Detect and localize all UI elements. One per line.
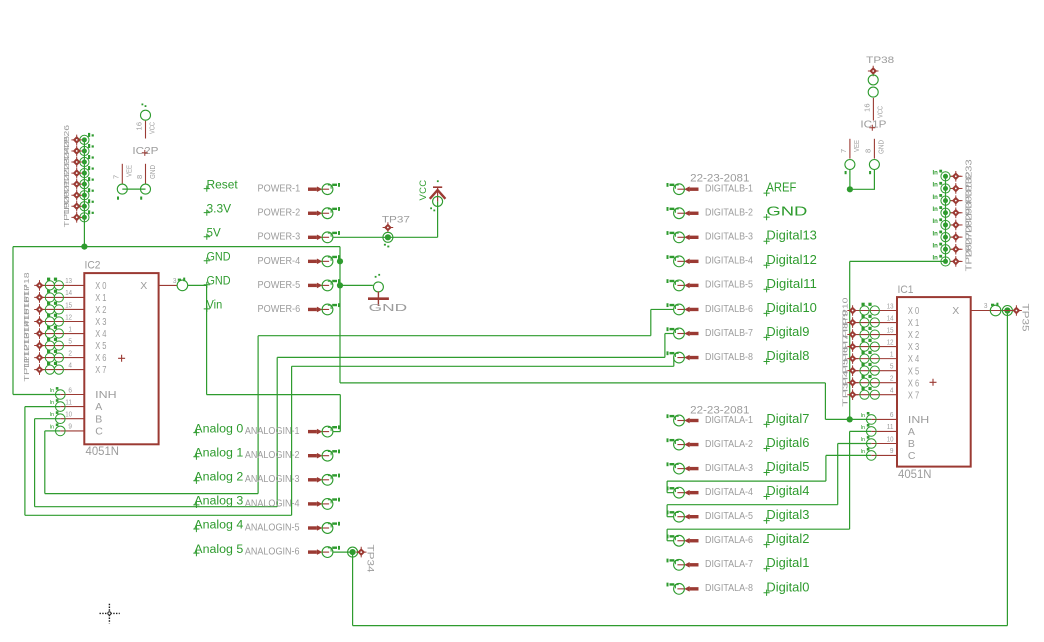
net label Digital4 (764, 483, 810, 500)
net label Digital5 (764, 459, 810, 476)
svg-text:VEE: VEE (854, 140, 861, 152)
test points TP19-TP26 column (80, 133, 94, 222)
net label Analog 1 (193, 447, 243, 459)
sheet origin crosshair (100, 604, 120, 624)
junction GND at TP column (81, 244, 87, 250)
svg-text:Analog 3: Analog 3 (194, 496, 243, 508)
svg-text:Digital8: Digital8 (766, 348, 809, 363)
connector pin DIGITALA-4 (667, 486, 699, 498)
svg-text:TP3: TP3 (841, 382, 850, 407)
svg-text:TP35: TP35 (1020, 304, 1031, 332)
svg-text:B: B (95, 413, 102, 425)
wire VCC POWER-3 to TP37 and VCC symbol (333, 236, 437, 238)
test point column labels right (965, 159, 974, 272)
net label 3.3V (204, 203, 232, 215)
connector pin DIGITALB-6 (667, 303, 699, 315)
svg-text:ANALOGIN-3: ANALOGIN-3 (245, 473, 300, 485)
svg-text:ANALOGIN-1: ANALOGIN-1 (245, 425, 300, 437)
wire net Digital9 IC2 B to DIGITALB-7 (35, 418, 61, 420)
svg-text:Digital1: Digital1 (766, 555, 809, 570)
svg-text:GND: GND (879, 140, 886, 154)
test point TP23 cross (71, 168, 82, 179)
svg-text:POWER-5: POWER-5 (258, 279, 301, 291)
IC1 pin 10 B (861, 436, 898, 448)
net label 5V (204, 228, 221, 240)
svg-text:DIGITALA-8: DIGITALA-8 (705, 583, 753, 594)
test points TP27-TP34 column right (933, 170, 963, 266)
svg-text:X 6: X 6 (95, 352, 106, 364)
IC2 test point column labels TP11-TP18 (22, 272, 31, 381)
svg-text:A: A (95, 401, 102, 413)
test point TP27 cross (951, 244, 962, 255)
svg-text:In: In (933, 207, 939, 213)
connector pin DIGITALB-3 (667, 231, 699, 243)
TP37 tiny marks (384, 244, 386, 246)
test point TP38 pad (868, 75, 878, 85)
svg-text:11: 11 (887, 422, 894, 431)
svg-text:6: 6 (890, 410, 894, 419)
connector pin DIGITALB-2 (667, 207, 699, 219)
svg-text:TP19: TP19 (62, 202, 71, 227)
IC1 pin 3 X output with TP35 (971, 303, 1022, 316)
net label Digital2 (764, 531, 810, 548)
IC2 test point cross X6 (34, 352, 45, 363)
svg-text:In: In (861, 425, 866, 431)
svg-text:13: 13 (65, 276, 72, 285)
net label Analog 0 (193, 423, 243, 435)
svg-text:VCC: VCC (150, 122, 157, 134)
svg-text:POWER-1: POWER-1 (258, 183, 301, 195)
IC1 pin 12 X3 with test point (853, 339, 897, 351)
test point TP28 cross (951, 232, 962, 243)
svg-text:Digital10: Digital10 (766, 300, 817, 315)
svg-text:3: 3 (173, 276, 177, 285)
svg-text:DIGITALA-2: DIGITALA-2 (705, 439, 753, 450)
net label Digital9 (764, 324, 810, 341)
connector pin POWER-1 (308, 183, 340, 195)
svg-text:TP34: TP34 (365, 545, 376, 573)
svg-text:16: 16 (863, 103, 872, 112)
IC2 origin cross (118, 355, 125, 362)
IC1 test point cross X0 (847, 305, 858, 316)
test point TP38 cross (868, 66, 879, 77)
connector pin DIGITALB-8 (667, 351, 699, 363)
net label AREF (764, 180, 797, 197)
wire GND horizontal to right side (340, 382, 825, 384)
svg-text:DIGITALA-3: DIGITALA-3 (705, 463, 753, 474)
test point TP30 cross (951, 207, 962, 218)
svg-text:5: 5 (890, 361, 894, 370)
svg-text:7: 7 (112, 175, 121, 179)
wire net Analog5 ANALOGIN-6 to TP34 (333, 551, 352, 553)
svg-text:POWER-2: POWER-2 (258, 207, 301, 219)
svg-text:Digital2: Digital2 (766, 531, 809, 546)
svg-text:POWER-6: POWER-6 (258, 303, 301, 315)
IC1 test point column labels TP3-TP10 (841, 298, 850, 407)
IC1 pin 6 INH (861, 412, 898, 424)
svg-text:DIGITALA-5: DIGITALA-5 (705, 511, 753, 522)
IC1 pin 5 X5 with test point (853, 363, 897, 375)
svg-text:3.3V: 3.3V (207, 203, 232, 215)
test point TP34 pad (348, 547, 358, 557)
connector pin DIGITALA-5 (667, 511, 699, 523)
connector pin ANALOGIN-4 (308, 498, 340, 510)
svg-text:11: 11 (65, 397, 72, 406)
IC2 pin 5 X5 with test point (40, 338, 85, 350)
IC1P pin 8 GND (869, 139, 879, 174)
svg-text:Analog 2: Analog 2 (194, 472, 243, 484)
connector pin ANALOGIN-5 (308, 522, 340, 534)
IC1P pin 7 VEE (845, 139, 855, 174)
connector pin DIGITALA-2 (667, 438, 699, 450)
svg-text:In: In (933, 219, 939, 225)
net label GND (764, 204, 808, 221)
svg-text:In: In (933, 183, 939, 189)
IC1P pin 16 VCC (868, 87, 878, 120)
wire GND TP19-26 column stem (83, 140, 85, 247)
svg-text:X 5: X 5 (908, 365, 919, 377)
svg-text:Analog 0: Analog 0 (194, 423, 243, 435)
svg-text:X 2: X 2 (908, 329, 919, 341)
svg-text:In: In (50, 412, 55, 418)
connector pin DIGITALA-8 (667, 583, 699, 595)
IC1 test point cross X4 (847, 353, 858, 364)
svg-text:10: 10 (887, 434, 894, 443)
svg-text:X: X (140, 280, 147, 292)
svg-text:ANALOGIN-5: ANALOGIN-5 (245, 521, 300, 533)
svg-text:13: 13 (887, 301, 894, 310)
IC1 pin 2 X6 with test point (853, 375, 897, 387)
wire GND to right TP column stem (850, 260, 946, 262)
svg-text:4: 4 (890, 386, 894, 395)
wire IC2P VEE-GND tie (122, 188, 145, 190)
wire GND right TP column chain (945, 176, 947, 261)
svg-text:8: 8 (135, 175, 144, 179)
svg-text:4051N: 4051N (898, 469, 932, 481)
svg-text:TP37: TP37 (382, 214, 410, 224)
svg-text:X 2: X 2 (95, 304, 106, 316)
connector pin DIGITALA-3 (667, 462, 699, 474)
svg-text:X 6: X 6 (908, 377, 919, 389)
svg-text:5: 5 (68, 336, 72, 345)
svg-text:5V: 5V (207, 228, 222, 240)
svg-text:Digital7: Digital7 (766, 411, 809, 426)
svg-text:Digital12: Digital12 (766, 252, 817, 267)
svg-text:DIGITALB-8: DIGITALB-8 (705, 352, 753, 363)
svg-text:DIGITALA-6: DIGITALA-6 (705, 535, 753, 546)
test point TP25 cross (71, 146, 82, 157)
svg-text:Digital11: Digital11 (766, 276, 817, 291)
svg-text:X 7: X 7 (95, 364, 106, 376)
svg-text:In: In (933, 171, 939, 177)
test point TP22 cross (71, 179, 82, 190)
test point TP33 cross (951, 171, 962, 182)
svg-text:DIGITALB-3: DIGITALB-3 (705, 232, 753, 243)
svg-text:Digital0: Digital0 (766, 579, 809, 594)
svg-text:In: In (861, 437, 866, 443)
svg-text:DIGITALB-7: DIGITALB-7 (705, 328, 753, 339)
net label Analog 3 (193, 496, 243, 508)
IC2 pin 11 A (50, 399, 85, 411)
svg-text:AREF: AREF (766, 180, 796, 195)
net label Analog 4 (193, 520, 244, 532)
svg-text:Vin: Vin (207, 300, 223, 312)
test point TP37 pad (383, 232, 393, 242)
wire GND vertical bus x340 (339, 247, 341, 383)
connector pin ANALOGIN-2 (308, 450, 340, 462)
IC1 pin 1 X4 with test point (853, 351, 897, 363)
wire net Digital3 DIGITALA-5 to IC1 B (667, 516, 674, 518)
svg-text:TP11: TP11 (22, 357, 31, 382)
svg-text:In: In (933, 231, 939, 237)
wire GND left drop to IC2 INH (12, 247, 14, 395)
svg-text:4051N: 4051N (86, 446, 120, 458)
test point TP24 cross (71, 157, 82, 168)
svg-text:Digital6: Digital6 (766, 435, 809, 450)
svg-text:ANALOGIN-4: ANALOGIN-4 (245, 497, 300, 509)
svg-text:IC1: IC1 (898, 284, 914, 296)
IC1 test point cross X3 (847, 341, 858, 352)
svg-text:X: X (952, 305, 959, 317)
svg-text:14: 14 (887, 313, 894, 322)
wire net Digital10 IC2 C to DIGITALB-6 (45, 430, 61, 432)
IC2 test point cross X1 (34, 292, 45, 303)
IC2 pin 3 X output (159, 278, 188, 291)
op-amp IC2 4051N body (84, 273, 158, 444)
svg-text:8: 8 (864, 149, 873, 153)
svg-text:2: 2 (890, 373, 894, 382)
test point TP29 cross (951, 220, 962, 231)
svg-text:Digital5: Digital5 (766, 459, 809, 474)
svg-text:ANALOGIN-2: ANALOGIN-2 (245, 449, 300, 461)
junction TP37 (385, 234, 391, 240)
net label Digital13 (764, 228, 817, 245)
svg-text:C: C (95, 426, 103, 438)
net label Digital1 (764, 555, 810, 572)
IC2 pin 12 X3 with test point (40, 314, 85, 326)
wire net Analog0 IC2 X output (188, 284, 207, 286)
connector pin DIGITALB-7 (667, 327, 699, 339)
IC1 test point cross X6 (847, 377, 858, 388)
junction TP35 (1004, 307, 1010, 313)
net label Digital8 (764, 348, 810, 365)
svg-text:12: 12 (887, 337, 894, 346)
connector pin DIGITALB-1 (667, 183, 699, 195)
IC1 test point cross X5 (847, 365, 858, 376)
svg-text:C: C (908, 450, 916, 462)
svg-text:9: 9 (68, 422, 72, 431)
supply GND symbol (368, 274, 389, 306)
svg-text:ANALOGIN-6: ANALOGIN-6 (245, 546, 300, 558)
test point TP19 cross (71, 212, 82, 223)
net label Digital0 (764, 579, 810, 596)
svg-text:Reset: Reset (207, 179, 239, 191)
IC1 origin cross (930, 379, 937, 386)
wire net Analog5 bottom run to IC1 X output TP35 (352, 552, 354, 626)
svg-text:10: 10 (65, 410, 72, 419)
svg-text:Analog 5: Analog 5 (194, 544, 243, 556)
test point column labels TP19-TP26 (62, 125, 71, 227)
connector pin DIGITALA-7 (667, 559, 699, 571)
IC2 pin 14 X1 with test point (40, 290, 85, 302)
svg-text:Analog 1: Analog 1 (194, 447, 243, 459)
svg-text:16: 16 (135, 122, 144, 131)
svg-text:GND: GND (369, 302, 408, 314)
IC2 pin 2 X6 with test point (40, 350, 85, 362)
wire net Digital2 DIGITALA-6 to IC1 A (667, 540, 674, 542)
IC1 pin 9 C (861, 448, 898, 460)
svg-text:15: 15 (65, 300, 72, 309)
connector pin POWER-5 (308, 279, 340, 291)
svg-text:Digital9: Digital9 (766, 324, 809, 339)
svg-text:VEE: VEE (127, 165, 134, 177)
svg-text:DIGITALA-7: DIGITALA-7 (705, 559, 753, 570)
svg-text:Digital13: Digital13 (766, 228, 817, 243)
IC1 pin 4 X7 with test point (853, 387, 897, 399)
IC2 test point cross X2 (34, 304, 45, 315)
IC1 test point cross X2 (847, 329, 858, 340)
connector pin DIGITALA-6 (667, 535, 699, 547)
wire net Digital4 DIGITALA-4 to IC1 C (667, 492, 674, 494)
svg-text:GND: GND (207, 252, 231, 264)
svg-text:POWER-3: POWER-3 (258, 231, 301, 243)
test point TP32 cross (951, 183, 962, 194)
svg-text:Analog 4: Analog 4 (194, 520, 244, 532)
IC2 pin 4 X7 with test point (40, 362, 85, 374)
junction GND POWER-5 (337, 282, 343, 288)
net label Analog 2 (193, 472, 243, 484)
svg-text:Digital3: Digital3 (766, 507, 809, 522)
test point TP35 cross (1011, 305, 1022, 316)
svg-text:X 4: X 4 (908, 353, 919, 365)
svg-text:X 1: X 1 (908, 317, 919, 329)
junction GND POWER-4 (337, 258, 343, 264)
connector pin ANALOGIN-6 (308, 546, 340, 558)
net label Digital12 (764, 252, 817, 269)
connector pin POWER-4 (308, 255, 340, 267)
IC2P pin 8 GND (140, 164, 150, 200)
svg-text:GND: GND (207, 276, 231, 288)
svg-text:In: In (861, 449, 866, 455)
IC1P origin cross (869, 125, 875, 131)
svg-text:DIGITALB-6: DIGITALB-6 (705, 304, 753, 315)
svg-text:6: 6 (68, 385, 72, 394)
IC2 pin 15 X2 with test point (40, 302, 85, 314)
svg-text:DIGITALA-4: DIGITALA-4 (705, 487, 753, 498)
wire IC1P VEE-GND tie (850, 169, 875, 189)
svg-text:DIGITALA-1: DIGITALA-1 (705, 415, 753, 426)
connector pin POWER-2 (308, 207, 340, 219)
test point TP34 cross (356, 547, 367, 558)
connector pin POWER-6 (308, 303, 340, 315)
connector pin DIGITALB-5 (667, 279, 699, 291)
svg-text:12: 12 (65, 312, 72, 321)
svg-text:X 4: X 4 (95, 328, 106, 340)
IC2P pin 7 VEE (117, 164, 127, 200)
svg-text:X 0: X 0 (95, 280, 106, 292)
net label GND (204, 276, 231, 288)
wire GND POWER-5 to GND symbol (340, 284, 373, 286)
svg-text:IC1P: IC1P (860, 119, 886, 130)
IC1 pin 15 X2 with test point (853, 327, 897, 339)
net label Vin (204, 300, 223, 312)
svg-text:DIGITALB-2: DIGITALB-2 (705, 208, 753, 219)
IC2P pin 16 VCC (141, 104, 151, 139)
svg-text:In: In (933, 243, 939, 249)
svg-text:3: 3 (984, 301, 988, 310)
IC1 pin 13 X0 with test point (853, 303, 897, 315)
svg-text:GND: GND (766, 204, 807, 219)
IC1 test point cross X1 (847, 317, 858, 328)
IC2P origin cross (142, 150, 148, 156)
junction IC1P ground (847, 186, 853, 192)
svg-text:INH: INH (908, 414, 929, 426)
supply VCC symbol (430, 180, 446, 211)
svg-text:X 7: X 7 (908, 389, 919, 401)
svg-text:In: In (50, 388, 55, 394)
svg-text:In: In (933, 195, 939, 201)
connector pin ANALOGIN-3 (308, 474, 340, 486)
svg-text:9: 9 (890, 446, 894, 455)
connector pin DIGITALB-4 (667, 255, 699, 267)
svg-text:TP26: TP26 (965, 244, 974, 272)
svg-text:DIGITALB-4: DIGITALB-4 (705, 256, 753, 267)
svg-text:1: 1 (890, 349, 894, 358)
svg-text:INH: INH (95, 389, 116, 401)
test point TP37 cross (383, 222, 394, 233)
svg-text:Digital4: Digital4 (766, 483, 809, 498)
svg-text:7: 7 (839, 149, 848, 153)
net label Digital6 (764, 435, 810, 452)
op-amp IC1 4051N body (897, 297, 971, 467)
IC2 pin 10 B (50, 411, 85, 423)
svg-text:In: In (861, 413, 866, 419)
svg-text:X 3: X 3 (908, 341, 919, 353)
IC2 test point cross X0 (34, 280, 45, 291)
svg-text:In: In (933, 256, 939, 262)
svg-text:2: 2 (68, 348, 72, 357)
IC1 pin 11 A (861, 424, 898, 436)
IC1 test point cross X7 (847, 389, 858, 400)
svg-text:In: In (50, 400, 55, 406)
connector pin ANALOGIN-1 (308, 425, 340, 437)
IC2 test point cross X5 (34, 340, 45, 351)
svg-text:In: In (50, 424, 55, 430)
test point TP21 cross (71, 190, 82, 201)
svg-text:B: B (908, 438, 915, 450)
wire GND horizontal main (13, 246, 340, 248)
svg-text:DIGITALB-5: DIGITALB-5 (705, 280, 753, 291)
junction GND at IC1 INH (847, 416, 853, 422)
svg-text:DIGITALB-1: DIGITALB-1 (705, 184, 753, 195)
connector pin DIGITALA-1 (667, 414, 699, 426)
svg-text:X 1: X 1 (95, 292, 106, 304)
net label Analog 5 (193, 544, 243, 556)
svg-text:GND: GND (150, 165, 157, 179)
IC2 test point cross X3 (34, 316, 45, 327)
IC2 pin 9 C (50, 424, 85, 436)
net label GND (204, 252, 231, 264)
svg-text:POWER-4: POWER-4 (258, 255, 301, 267)
IC2 test point cross X4 (34, 328, 45, 339)
IC2 pin 1 X4 with test point (40, 326, 85, 338)
net label Digital11 (764, 276, 817, 293)
svg-text:1: 1 (68, 324, 72, 333)
IC2 pin 13 X0 with test point (40, 278, 85, 290)
test point TP26 cross (71, 135, 82, 146)
svg-text:X 3: X 3 (95, 316, 106, 328)
IC2 pin 6 INH (50, 387, 85, 399)
